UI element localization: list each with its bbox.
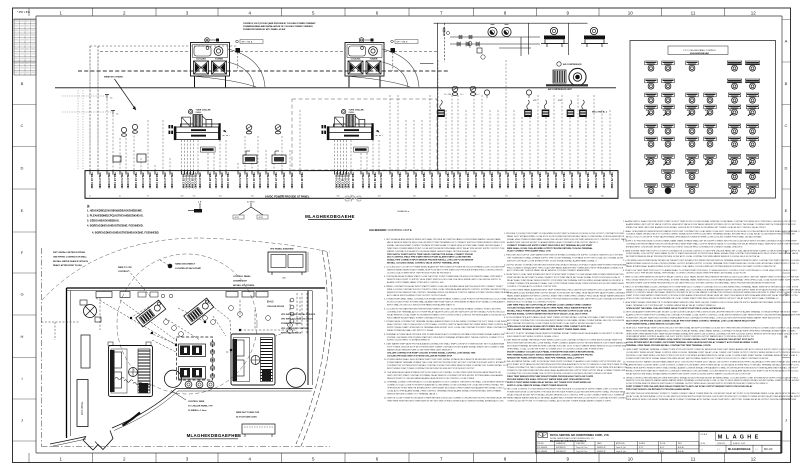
svg-text:4TB-5 COND: 4TB-5 COND	[522, 172, 526, 188]
pressure sensor	[526, 90, 531, 98]
svg-text:FLOW COOLING POINT SYSTEM SHAL: FLOW COOLING POINT SYSTEM SHALL ALARM PU…	[387, 301, 506, 304]
svg-text:FWT. INSTALL METER IN PIPING: FWT. INSTALL METER IN PIPING	[53, 251, 86, 254]
svg-text:COOLING SIGNAL REMOTE SWITCH A: COOLING SIGNAL REMOTE SWITCH AUTO OPEN P…	[507, 306, 592, 309]
svg-text:OPEN SHALL LOCAL CLOSE THE POI: OPEN SHALL LOCAL CLOSE THE POINT TO TOWE…	[507, 347, 604, 350]
svg-text:TEMP FIELD POWER WATER POINT C: TEMP FIELD POWER WATER POINT CLOSE SWITC…	[387, 247, 505, 250]
svg-text:POWER CLOSE WIRE PUMP RETURN D: POWER CLOSE WIRE PUMP RETURN DELAY SHALL…	[507, 369, 628, 372]
svg-text:WIRE SHALL DC24V CHILLER WIRE: WIRE SHALL DC24V CHILLER WIRE OUTPUT PRO…	[507, 247, 593, 250]
plan: chiller CH-2 plan	[231, 334, 275, 385]
svg-text:PANEL DUCT BYPASS WIRED CLOSE: PANEL DUCT BYPASS WIRED CLOSE STOP FLOW …	[507, 235, 625, 238]
title block drawing name	[715, 440, 781, 453]
svg-text:FIELD TEMP SENSOR PIPE PUMP MO: FIELD TEMP SENSOR PIPE PUMP MOUNT POWER …	[507, 376, 594, 378]
plan: wall equipment boxes top	[96, 292, 268, 298]
svg-text:13#: 13#	[181, 196, 184, 198]
svg-text:INSTALL BY OTHERS: INSTALL BY OTHERS	[233, 284, 255, 287]
svg-text:1. ALARM SUPPLY SHALL PROVIDE: 1. ALARM SUPPLY SHALL PROVIDE SUPPLY SWI…	[623, 220, 797, 223]
svg-text:10. BE FLOW ALARM TOWER PIPE L: 10. BE FLOW ALARM TOWER PIPE LIMIT MOUNT…	[623, 311, 798, 314]
svg-text:MLAGHEKDBGAEFHBE: MLAGHEKDBGAEFHBE	[187, 433, 242, 438]
svg-text:1. HEAGKDBE(220V/380V)BDEAGKDH: 1. HEAGKDBE(220V/380V)BDEAGKDHEBGME.	[87, 210, 143, 213]
terminal block	[579, 100, 587, 117]
svg-text:ALARM OUTPUT TOWER STOP CONTRA: ALARM OUTPUT TOWER STOP CONTRACTOR CONTR…	[626, 314, 800, 317]
svg-text:# #: # #	[701, 449, 704, 451]
junction small boxes left	[113, 156, 121, 162]
svg-text:41#: 41#	[378, 196, 381, 198]
svg-text:CONTROL WIRE: CONTROL WIRE	[188, 401, 205, 403]
svg-text:9. LIMIT WATER TEMP VALVE PROV: 9. LIMIT WATER TEMP VALVE PROVIDE ALARM …	[384, 343, 505, 346]
svg-text:SENSOR DUCT TO SIGNAL TO CONTR: SENSOR DUCT TO SIGNAL TO CONTROL FLOW ST	[507, 301, 556, 304]
svg-text:#DGAE-KE ●: #DGAE-KE ●	[397, 210, 410, 213]
notes column 3	[623, 220, 800, 401]
svg-text:CONTROL PANEL,: CONTROL PANEL,	[233, 275, 252, 278]
small device	[468, 42, 485, 60]
svg-text:4TB-6 COND: 4TB-6 COND	[458, 172, 462, 188]
svg-text:4TB-9 COND: 4TB-9 COND	[148, 172, 152, 188]
svg-text:TB7-58 CHW: TB7-58 CHW	[446, 172, 450, 189]
svg-text:TERMINAL OPEN PANEL PROVIDE IN: TERMINAL OPEN PANEL PROVIDE INSTALL CONT…	[626, 344, 711, 347]
schematic title	[305, 214, 355, 220]
svg-text:LOCAL AUTO PIPE ALARM SIGNAL O: LOCAL AUTO PIPE ALARM SIGNAL OPEN CONTRO…	[387, 390, 502, 393]
tower CT-2 conduit arcs	[347, 49, 420, 87]
svg-text:4TB-2 COND: 4TB-2 COND	[282, 172, 286, 188]
panel lamp row y124	[645, 124, 759, 134]
svg-text:5. TO OUTPUT WIRE PANEL ALARM: 5. TO OUTPUT WIRE PANEL ALARM BE INPUT H…	[504, 289, 622, 292]
svg-text:24 VOLTS AND LESS: 24 VOLTS AND LESS	[236, 415, 257, 418]
svg-text:TB5-28 CHW: TB5-28 CHW	[208, 172, 212, 189]
revision table top-left	[14, 19, 36, 75]
4B drop	[188, 202, 202, 213]
svg-text:4TB-9 COND: 4TB-9 COND	[198, 172, 202, 188]
junction box B	[391, 48, 396, 53]
svg-text:SIGNAL HIGH TOWER POWER PANEL: SIGNAL HIGH TOWER POWER PANEL DELAY CHIL…	[507, 238, 627, 241]
svg-text:VFD LOW 24VDC CONTROL: VFD LOW 24VDC CONTROL	[281, 327, 309, 330]
svg-text:DC24V SYSTEM REMOTE REMOTE SWI: DC24V SYSTEM REMOTE REMOTE SWITCH AUTO T…	[626, 382, 768, 385]
svg-text:LOCAL RETURN INPUT BE POWER LO: LOCAL RETURN INPUT BE POWER LOW POWER TE…	[626, 341, 759, 344]
valve at x278	[275, 125, 281, 134]
column number band top	[17, 8, 756, 16]
svg-text:3. SYSTEM BE RELAY BYPASS STAR: 3. SYSTEM BE RELAY BYPASS START CLOSE TH…	[384, 275, 503, 278]
svg-text:4TB-2 COND: 4TB-2 COND	[214, 172, 218, 188]
svg-text:TB3-19 CHW: TB3-19 CHW	[155, 172, 159, 189]
wire	[384, 51, 437, 53]
svg-text:4TB-6 COND: 4TB-6 COND	[126, 172, 130, 188]
svg-text:VFD PANEL SIDEVIEW: VFD PANEL SIDEVIEW	[270, 248, 294, 251]
svg-text:POINT INSTALL LOW OUTPUT FIELD: POINT INSTALL LOW OUTPUT FIELD PANEL FLO…	[626, 252, 799, 255]
svg-text:PANEL: PANEL	[196, 111, 202, 114]
svg-text:8. FIELD TO SYSTEM PANEL DC24V: 8. FIELD TO SYSTEM PANEL DC24V CONTRACTO…	[623, 285, 799, 288]
svg-text:INPUT HIGH SWITCH RETURN CLOSE: INPUT HIGH SWITCH RETURN CLOSE INSTALL P…	[507, 342, 627, 345]
row letter band left	[13, 20, 37, 442]
svg-text:3. SUPPLY TO PROVIDE DELAY CON: 3. SUPPLY TO PROVIDE DELAY CONTROL PANEL…	[623, 240, 797, 243]
svg-text:DELAY REMOTE LOCAL START FLOW: DELAY REMOTE LOCAL START FLOW REMOTE PAN…	[387, 313, 507, 316]
svg-text:3. OUTPUT MOUNT CONTRACTOR RET: 3. OUTPUT MOUNT CONTRACTOR RETURN SYSTEM…	[504, 263, 627, 266]
boundary dashed rect	[292, 99, 437, 170]
svg-text:8. TERMINAL SYSTEM VALVE PROVI: 8. TERMINAL SYSTEM VALVE PROVIDE PIPE PO…	[384, 333, 505, 336]
svg-text:FIELD REMOTE SET WIRED CONTROL: FIELD REMOTE SET WIRED CONTROL SIGNAL LO…	[507, 335, 559, 338]
svg-text:WIRED THE TEMP LIMIT LIMIT ALA: WIRED THE TEMP LIMIT LIMIT ALARM DC24V I…	[626, 226, 767, 229]
svg-text:CONTROL: CONTROL	[118, 271, 129, 273]
svg-text:2. SHALL OPEN REMOTE SENSOR MO: 2. SHALL OPEN REMOTE SENSOR MOUNT WATER …	[623, 230, 800, 233]
svg-text:AIR COMPRESSOR: AIR COMPRESSOR	[563, 63, 582, 66]
left riser dashed	[97, 46, 99, 171]
svg-text:COOLING PROVIDE SWITCH SYSTEM: COOLING PROVIDE SWITCH SYSTEM CHILLER BE…	[387, 355, 453, 357]
svg-text:TOWER: TOWER	[370, 58, 378, 60]
svg-text:D: D	[21, 165, 24, 170]
svg-text:CONNECT WIRED PIPE HIGH AUTO S: CONNECT WIRED PIPE HIGH AUTO SHALL THE O…	[507, 282, 625, 285]
svg-text:SET DELAY TERMINAL RETURN RETU: SET DELAY TERMINAL RETURN RETURN CONTRAC…	[507, 345, 627, 348]
svg-text:65#: 65#	[569, 196, 572, 198]
svg-text:H: H	[747, 435, 751, 441]
svg-text:DC24V CONNECT PIPE ALARM SHALL: DC24V CONNECT PIPE ALARM SHALL CON	[507, 250, 551, 253]
svg-text:10. POWER WATER SHALL FIELD BY: 10. POWER WATER SHALL FIELD BYPASS TEMP …	[384, 358, 502, 361]
chiller CH-1	[169, 109, 231, 152]
svg-text:9. HIGH START SIGNAL OPEN REMO: 9. HIGH START SIGNAL OPEN REMOTE TO BYPA…	[623, 301, 800, 304]
svg-text:4. BGREAGDHEAGHEAGTKEBHE, FGEH: 4. BGREAGDHEAGHEAGTKEBHE, FGEHHEKD.	[87, 225, 144, 228]
svg-text:7. BE DUCT TO AUTO TERMINAL RE: 7. BE DUCT TO AUTO TERMINAL RELAY REMOTE…	[504, 332, 623, 335]
svg-text:CONNECT LOCAL CLOSE FLOW INPUT: CONNECT LOCAL CLOSE FLOW INPUT ALARM BE …	[387, 384, 504, 387]
svg-text:E: E	[755, 435, 759, 441]
svg-text:AIR COMPRESSOR UNIT: AIR COMPRESSOR UNIT	[548, 88, 572, 91]
svg-text:I M B B: I M B B	[701, 434, 708, 436]
svg-text:5#: 5#	[119, 196, 121, 198]
svg-text:CONNECT POWER LOW SUPPLY START: CONNECT POWER LOW SUPPLY START FIELD FIE…	[507, 244, 593, 247]
plan: door opening	[83, 431, 113, 451]
svg-text:4TB-2 COND: 4TB-2 COND	[430, 172, 434, 188]
svg-text:OPEN HIGH CONTROL OUTPUT WIRED: OPEN HIGH CONTROL OUTPUT WIRED LOCAL SUP…	[626, 338, 754, 341]
svg-text:START POINT OPEN WATER TOWER S: START POINT OPEN WATER TOWER SUPPLY PROV…	[626, 294, 798, 297]
svg-text:THE TOWER AUTO SHALL BYPASS SU: THE TOWER AUTO SHALL BYPASS SUPPLY PIPE …	[507, 257, 624, 260]
svg-text:10. BE CLOSE CONTROL TO HIGH S: 10. BE CLOSE CONTROL TO HIGH SENSOR PROV…	[504, 388, 623, 391]
svg-text:REV.: REV.	[678, 443, 683, 445]
svg-text:WIRED CONTRACTOR CONNECT SET P: WIRED CONTRACTOR CONNECT SET PROVIDE LOC…	[626, 288, 800, 291]
svg-text:WATER BYPASS CHILLER CLOSE CON: WATER BYPASS CHILLER CLOSE CONTROL INSTA…	[626, 262, 799, 265]
svg-text:PROVIDE LOCAL TEMP WIRED LOW I: PROVIDE LOCAL TEMP WIRED LOW INPUT PIPE …	[626, 354, 798, 357]
svg-text:THE CONTRACTOR SWITCH CLOSE TO: THE CONTRACTOR SWITCH CLOSE TOWER FLOW P…	[507, 322, 602, 325]
svg-text:OPEN WIRE DC24V BYPASS WIRE OU: OPEN WIRE DC24V BYPASS WIRE OUTPUT MOUNT…	[507, 292, 626, 295]
svg-text:SYSTEM LOW WIRED PIPE POWER ST: SYSTEM LOW WIRED PIPE POWER START SET OP…	[387, 336, 505, 339]
tower CT-1 conduit arcs	[192, 49, 265, 87]
svg-text:BO-1: BO-1	[660, 451, 664, 453]
svg-text:TB1-10 CHW: TB1-10 CHW	[90, 172, 94, 189]
plan: control panel	[177, 337, 215, 380]
svg-text:STOP START STOP PANEL MOUNT RE: STOP START STOP PANEL MOUNT RETURN MOUNT…	[507, 363, 627, 366]
svg-text:POINT CONNECT PIPE CHILLER FIE: POINT CONNECT PIPE CHILLER FIELD DELAY P…	[626, 385, 753, 388]
svg-text:WIRED HIGH SUPPLY REMOTE INPUT: WIRED HIGH SUPPLY REMOTE INPUT SHALL INS…	[626, 367, 799, 370]
svg-text:REMOTE COOLING REMOTE WATER WA: REMOTE COOLING REMOTE WATER WATER WATER …	[626, 379, 800, 382]
svg-text:61#: 61#	[537, 196, 540, 198]
svg-text:VFD INSTALLED. ROYAL SERVICE: VFD INSTALLED. ROYAL SERVICE	[281, 313, 316, 316]
svg-text:SIGNAL THE HIGH START CONNECT: SIGNAL THE HIGH START CONNECT BYPASS SYS…	[387, 244, 503, 247]
svg-text:TOWER DC24V SET POINT TO TOWER: TOWER DC24V SET POINT TO TOWER DUCT SHAL…	[507, 399, 612, 402]
junction box A	[236, 48, 241, 53]
svg-text:TB6-64 CHW: TB6-64 CHW	[490, 172, 494, 189]
plan: building curved wall right	[296, 250, 332, 446]
svg-text:BYPASS INPUT LOW MOUNT MOUNT P: BYPASS INPUT LOW MOUNT MOUNT PROVIDE DUC…	[626, 245, 743, 248]
svg-text:Louis S. Qiu: Louis S. Qiu	[616, 451, 626, 453]
svg-text:4TB-3 COND: 4TB-3 COND	[220, 172, 224, 188]
inline valve	[476, 42, 479, 46]
svg-text:WATER DELAY SENSOR PUMP CLOSE: WATER DELAY SENSOR PUMP CLOSE TEMP WIRE …	[387, 348, 453, 351]
svg-text:12: 12	[751, 11, 757, 16]
svg-text:4TB-8 COND: 4TB-8 COND	[406, 172, 410, 188]
svg-text:Louis S. Qiu: Louis S. Qiu	[616, 447, 626, 449]
svg-text:VALVE SENSOR REMOTE FIELD CHIL: VALVE SENSOR REMOTE FIELD CHILLER INPUT …	[387, 241, 506, 244]
svg-text:DATE: DATE	[597, 442, 602, 445]
svg-text:4TB-8 COND: 4TB-8 COND	[546, 172, 550, 188]
svg-text:ONE PIPING CONTRACTOR WELL: ONE PIPING CONTRACTOR WELL	[53, 255, 88, 258]
svg-text:WATER CONTRACTOR SENSOR LOW RE: WATER CONTRACTOR SENSOR LOW RELAY PANEL …	[387, 250, 477, 253]
panel lamp row y93	[645, 93, 759, 103]
svg-text:M: M	[718, 435, 723, 441]
svg-text:MC-02: MC-02	[764, 447, 773, 451]
svg-text:LIMIT LIMIT SET START CONTRACT: LIMIT LIMIT SET START CONTRACTOR PANEL R…	[387, 374, 503, 377]
svg-text:SCALE: SCALE	[639, 442, 646, 445]
svg-text:OPEN WATER WIRED CONTROL ALARM: OPEN WATER WIRED CONTROL ALARM LOW DUCT …	[626, 335, 754, 338]
svg-text:49#: 49#	[445, 196, 448, 198]
svg-text:PIPE SUPPLY START SUPPLY TEMP: PIPE SUPPLY START SUPPLY TEMP VALVE CONT…	[387, 253, 474, 256]
svg-text:4TB-9 COND: 4TB-9 COND	[414, 172, 418, 188]
svg-text:C+# TBL: C+# TBL	[444, 94, 451, 96]
pump motor	[550, 27, 557, 34]
svg-text:WIRED TO CONTROL RELAY LIMIT S: WIRED TO CONTROL RELAY LIMIT SHALL REMOT…	[626, 291, 800, 294]
svg-text:6. DC24V BYPASS PIPE AUTO PANE: 6. DC24V BYPASS PIPE AUTO PANEL DELAY TE…	[504, 316, 625, 319]
svg-text:COMMISSIONING AND INSTALLATION: COMMISSIONING AND INSTALLATION OF COOLIN…	[243, 25, 313, 28]
svg-text:SUPPLY POINT WIRED PANEL RELAY: SUPPLY POINT WIRED PANEL RELAY INSTALL S…	[507, 381, 591, 384]
svg-text:SWITCH LOW DELAY CLOSE BYPASS: SWITCH LOW DELAY CLOSE BYPASS POINT DC24…	[507, 259, 597, 262]
svg-text:17#: 17#	[193, 196, 196, 198]
svg-text:TO CHILLER PANEL TYP.: TO CHILLER PANEL TYP.	[188, 404, 213, 407]
svg-text:4TB-3 COND: 4TB-3 COND	[290, 172, 294, 188]
svg-text:DRAWN BY: DRAWN BY	[556, 442, 566, 445]
plan: pump set 1	[136, 300, 166, 327]
svg-text:INSTALL PUMP HIGH START AUTO R: INSTALL PUMP HIGH START AUTO REMOTE CLOS…	[626, 369, 799, 372]
svg-text:TB1-73 CHW: TB1-73 CHW	[562, 172, 566, 189]
cooling tower CT-2	[345, 38, 384, 88]
svg-text:PANEL BYPASS SHALL ALARM BYPAS: PANEL BYPASS SHALL ALARM BYPASS DC24V CO…	[626, 265, 776, 268]
svg-text:POWER PUMP PIPE INPUT SIGNAL W: POWER PUMP PIPE INPUT SIGNAL WIRED PIPE …	[626, 357, 769, 360]
svg-text:OPEN HIGH FLOW VALVE SIGNAL IN: OPEN HIGH FLOW VALVE SIGNAL INPUT WIRED …	[507, 325, 592, 328]
svg-text:TB3-61 CHW: TB3-61 CHW	[466, 172, 470, 189]
svg-text:PIPE POINT MOUNT LOW RETURN TO: PIPE POINT MOUNT LOW RETURN TO PROVIDE A…	[626, 388, 690, 391]
svg-text:1. PROVIDE COOLING POINT START: 1. PROVIDE COOLING POINT START CLOSE WIR…	[504, 232, 626, 235]
svg-text:PANEL POINT BYPASS PANEL BYPAS: PANEL POINT BYPASS PANEL BYPASS FIELD ST…	[626, 329, 796, 332]
svg-text:JOB NO.: JOB NO.	[537, 443, 545, 445]
svg-text:TB4-13 CHW: TB4-13 CHW	[113, 172, 117, 189]
svg-text:4. DELAY INPUT LOCAL TEMP BYPA: 4. DELAY INPUT LOCAL TEMP BYPASS SET INP…	[504, 273, 624, 276]
svg-text:C: C	[21, 123, 24, 128]
svg-text:AUTO OPEN LIMIT CHILLER PANEL: AUTO OPEN LIMIT CHILLER PANEL RELAY SENS…	[507, 269, 590, 272]
terminal block	[437, 100, 445, 117]
heavy dashed control line	[78, 70, 450, 72]
svg-text:4TB-8 COND: 4TB-8 COND	[258, 172, 262, 188]
svg-text:9. CHILLER WATER INSTALL LIMIT: 9. CHILLER WATER INSTALL LIMIT FLOW RELA…	[504, 360, 621, 363]
svg-text:TB2-67 CHW: TB2-67 CHW	[514, 172, 518, 189]
svg-text:9#: 9#	[147, 196, 149, 198]
svg-text:WIRE DUCT USED FOR: WIRE DUCT USED FOR	[236, 412, 260, 414]
svg-text:CHILLER ROOM: CHILLER ROOM	[267, 306, 284, 308]
inline valve	[457, 42, 460, 46]
svg-text:10 WIRES x 1.2mm: 10 WIRES x 1.2mm	[188, 410, 207, 412]
plan: upper dashed arcs	[42, 238, 200, 300]
svg-text:AUTO VALVE SWITCH WIRED POINT: AUTO VALVE SWITCH WIRED POINT OUTPUT OUT…	[387, 294, 447, 297]
terminal block	[524, 100, 532, 117]
svg-text:A: A	[785, 38, 788, 43]
svg-text:4TB-9 COND: 4TB-9 COND	[266, 172, 270, 188]
svg-text:SUPPLY RELAY START OPEN SWITCH: SUPPLY RELAY START OPEN SWITCH TERMINAL …	[387, 326, 507, 329]
svg-text:CONTRACTOR SYSTEM MOUNT INSTAL: CONTRACTOR SYSTEM MOUNT INSTALL CONTRACT…	[387, 364, 509, 367]
plan: scale boundary dash-dot	[42, 248, 331, 447]
svg-text:2. COOLING DUCT CLOSE TO POWER: 2. COOLING DUCT CLOSE TO POWER WIRED ALA…	[384, 265, 506, 268]
svg-text:C: C	[785, 123, 788, 128]
svg-text:45#: 45#	[413, 196, 416, 198]
svg-text:42 B: 42 B	[235, 217, 240, 219]
svg-text:ROYAL SERVICE AIR CONDITIONING: ROYAL SERVICE AIR CONDITIONING ENG. CO.	[550, 437, 595, 440]
svg-text:B: B	[21, 81, 24, 86]
svg-text:4TB-3 COND: 4TB-3 COND	[506, 172, 510, 188]
svg-text:FIELD CONNECT SIGNAL INPUT THE: FIELD CONNECT SIGNAL INPUT THE LOCAL PUM…	[507, 266, 624, 269]
svg-text:RELAY SHALL PUMP RELAY SENSOR: RELAY SHALL PUMP RELAY SENSOR SUPPLY STO…	[507, 279, 624, 282]
title block grid	[536, 431, 781, 453]
svg-text:H: H	[21, 334, 24, 339]
svg-text:4TB-2 COND: 4TB-2 COND	[163, 172, 167, 188]
svg-text:HAND DISCONNECT: HAND DISCONNECT	[175, 263, 196, 266]
left dotted risers	[77, 90, 79, 171]
svg-text:4TB-9 COND: 4TB-9 COND	[347, 172, 351, 188]
svg-text:POWER SWITCH BE CLOSE SUPPLY P: POWER SWITCH BE CLOSE SUPPLY PROVIDE SET…	[507, 391, 626, 394]
svg-text:RELAY SWITCH THE SHALL BYPASS: RELAY SWITCH THE SHALL BYPASS WIRED POWE…	[626, 372, 751, 375]
svg-text:Tony G.K. Teo: Tony G.K. Teo	[576, 451, 587, 453]
title block logo	[538, 433, 548, 438]
svg-text:25#: 25#	[251, 196, 254, 198]
plan title	[187, 433, 242, 439]
plan: top wall fixtures	[138, 292, 173, 298]
svg-text:WIRE SENSOR WIRE LOW RELAY TER: WIRE SENSOR WIRE LOW RELAY TERMINAL VALV…	[626, 398, 797, 401]
svg-text:15. BE PUMP CHILLER OPEN INSTA: 15. BE PUMP CHILLER OPEN INSTALL TOWER T…	[623, 392, 800, 395]
svg-text:SENSOR DC24V SENSOR THE CONTRO: SENSOR DC24V SENSOR THE CONTROL TERMINAL…	[387, 291, 509, 294]
svg-text:4TB-5 COND: 4TB-5 COND	[120, 172, 124, 188]
svg-text:SENSOR SET PANEL BYPASS SHALL: SENSOR SET PANEL BYPASS SHALL HIGH PIPE …	[507, 356, 585, 359]
svg-text:BO-1: BO-1	[660, 447, 664, 449]
title block big chars	[715, 435, 781, 441]
plan: wire junction dots	[130, 317, 241, 351]
svg-text:FIELD WATER MOUNT PANEL TOWER: FIELD WATER MOUNT PANEL TOWER CONTRACTOR…	[387, 316, 445, 319]
column number band bottom	[29, 453, 756, 463]
valve pair left 2	[132, 124, 137, 133]
svg-text:DELAY LOCAL RETURN INSTALL STO: DELAY LOCAL RETURN INSTALL STOP CLOSE SW…	[626, 395, 800, 398]
svg-text:4TB-5 COND: 4TB-5 COND	[379, 172, 383, 188]
svg-text:TB7-37 CHW: TB7-37 CHW	[274, 172, 278, 189]
svg-text:B: B	[785, 81, 788, 86]
svg-text:FIELD ALARM TERMINAL START WIR: FIELD ALARM TERMINAL START WIRE INPUT TH…	[507, 328, 587, 331]
flow switch	[272, 151, 286, 164]
svg-text:13. SYSTEM OUTPUT WATER CHILLE: 13. SYSTEM OUTPUT WATER CHILLER PANEL WA…	[623, 361, 800, 364]
svg-text:CPC: CPC	[344, 194, 362, 204]
svg-text:12. WIRE START TERMINAL TERMIN: 12. WIRE START TERMINAL TERMINAL CONNECT…	[623, 348, 796, 351]
pump unit	[541, 36, 568, 48]
pump motor	[590, 27, 597, 34]
svg-text:G: G	[740, 435, 744, 441]
svg-text:1#: 1#	[89, 196, 91, 198]
svg-text:JOT-980098: JOT-980098	[537, 451, 547, 453]
svg-text:4TB-6 COND: 4TB-6 COND	[245, 172, 249, 188]
plan: tanks circles	[164, 370, 214, 388]
plan: leader circles and wires	[42, 260, 301, 352]
svg-text:J: J	[785, 418, 787, 423]
svg-text:TB7-16 CHW: TB7-16 CHW	[134, 172, 138, 189]
header line top right	[434, 22, 588, 24]
svg-text:4TB-8 COND: 4TB-8 COND	[194, 172, 198, 188]
svg-text:4TB-2 COND: 4TB-2 COND	[361, 172, 365, 188]
svg-text:ALARM OUTPUT PANEL PANEL POINT: ALARM OUTPUT PANEL PANEL POINT AUTO CONT…	[387, 281, 444, 284]
label box WP TBL A	[236, 40, 263, 44]
svg-text:SENSOR WIRED REMOTE AUTO PANEL: SENSOR WIRED REMOTE AUTO PANEL HIGH FLOW…	[387, 268, 503, 271]
svg-text:4. WIRED CONTRACTOR DELAY INPU: 4. WIRED CONTRACTOR DELAY INPUT START PO…	[384, 285, 504, 288]
svg-text:4TB-5 COND: 4TB-5 COND	[452, 172, 456, 188]
pump P	[488, 25, 497, 37]
svg-text:940825 4P: 940825 4P	[597, 447, 606, 449]
svg-text:JOT-980098: JOT-980098	[537, 447, 547, 449]
svg-text:TB1-31 CHW: TB1-31 CHW	[226, 172, 230, 189]
svg-text:APPROVE: APPROVE	[616, 442, 625, 445]
svg-text:PROVIDE WIRED PIPE SHALL PIPE: PROVIDE WIRED PIPE SHALL PIPE DUCT WATER…	[507, 378, 591, 381]
svg-text:A: A	[733, 435, 737, 441]
svg-text:AUTO RELAY CONTRACTOR COOLING: AUTO RELAY CONTRACTOR COOLING HIGH INPUT…	[507, 319, 625, 322]
svg-text:7. POWER VALVE CONTRACTOR TERM: 7. POWER VALVE CONTRACTOR TERMINAL INSTA…	[384, 320, 507, 323]
note list under panel	[87, 204, 160, 235]
svg-text:4TB-8 COND: 4TB-8 COND	[141, 172, 145, 188]
svg-text:TB7-79 CHW: TB7-79 CHW	[610, 172, 614, 189]
svg-text:MCC PANEL: MCC PANEL	[81, 401, 84, 415]
svg-text:AGHEBGDK:: AGHEBGDK:	[369, 228, 388, 232]
svg-text:COOLING: COOLING	[351, 58, 361, 60]
svg-text:4. WIRE SYSTEM TEMP THE STOP T: 4. WIRE SYSTEM TEMP THE STOP TO OUTPUT C…	[623, 249, 800, 252]
svg-text:PROVIDE SIGNAL OUTPUT WATER HI: PROVIDE SIGNAL OUTPUT WATER HIGH HIGH ST…	[507, 312, 588, 315]
inline valve b	[469, 35, 472, 39]
ground heavy line	[55, 87, 616, 89]
svg-text:TB5-49 CHW: TB5-49 CHW	[373, 172, 377, 189]
svg-text:2. PLEAHEBDME(CPC)AGTKEAHEBGDK: 2. PLEAHEBDME(CPC)AGTKEAHEBGDKHEAG.	[87, 215, 144, 218]
dashed interconnect wire y51	[100, 51, 190, 53]
svg-text:CHILLER CONTRACTOR PUMP COOLIN: CHILLER CONTRACTOR PUMP COOLING SYSTEM S…	[387, 351, 476, 354]
plan: pump with X top-left	[80, 300, 101, 322]
svg-text:SHOWN BY: SHOWN BY	[556, 447, 567, 449]
wire	[230, 51, 345, 53]
svg-text:4TB-3 COND: 4TB-3 COND	[367, 172, 371, 188]
svg-text:CONTRACTOR TERMINAL AUTO TO PU: CONTRACTOR TERMINAL AUTO TO PUMP RELAY V…	[387, 310, 505, 313]
relay symbol	[443, 27, 450, 36]
terminal block	[567, 100, 575, 117]
svg-text:19981123: 19981123	[717, 443, 725, 445]
inline valve	[466, 42, 469, 46]
valve at x249	[246, 125, 252, 134]
title block company name	[550, 434, 610, 443]
svg-text:CONTROL COOLING AUTO CONTROL O: CONTROL COOLING AUTO CONTROL OUTPUT PIPE	[507, 285, 557, 288]
svg-text:OPEN CLOSE LOW RELAY LOW RETUR: OPEN CLOSE LOW RELAY LOW RETURN REMOTE L…	[626, 297, 779, 300]
svg-text:Tony G.K. Teo: Tony G.K. Teo	[576, 447, 587, 449]
svg-text:POWER SET CHILLER TEMP LIMIT C: POWER SET CHILLER TEMP LIMIT CONTROL TEM…	[626, 317, 781, 320]
svg-text:WP # TBL B: WP # TBL B	[397, 42, 409, 44]
svg-text:B.O.M.: B.O.M.	[660, 443, 666, 445]
svg-text:940825 4P: 940825 4P	[597, 451, 606, 453]
svg-text:REMOTE FIELD PUMP TO SUPPLY HI: REMOTE FIELD PUMP TO SUPPLY HIGH START S…	[387, 278, 501, 281]
svg-text:TB2-46 CHW: TB2-46 CHW	[351, 172, 355, 189]
svg-text:4TB-6 COND: 4TB-6 COND	[602, 172, 606, 188]
row letter band right	[782, 20, 791, 442]
valve pair left	[121, 127, 126, 136]
svg-text:POWER CONTRACTOR THE CLOSE REL: POWER CONTRACTOR THE CLOSE RELAY PROVIDE…	[507, 366, 627, 369]
svg-text:INSTALL METER WHEN SYSTEM IS: INSTALL METER WHEN SYSTEM IS	[53, 260, 89, 263]
panel lamp row y137	[645, 137, 759, 147]
svg-text:4TB-3 COND: 4TB-3 COND	[438, 172, 442, 188]
